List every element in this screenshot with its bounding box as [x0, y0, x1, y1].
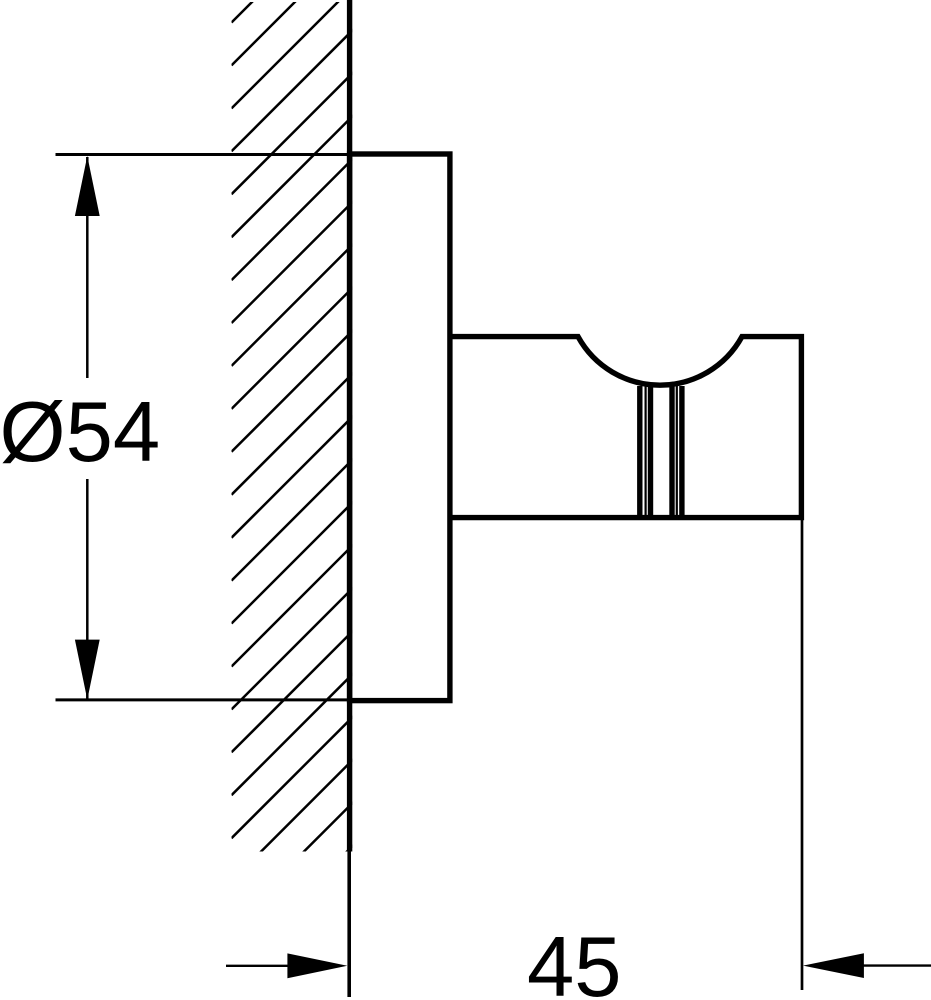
hook body outline with concave top dip	[450, 337, 802, 518]
45 dimension right arrowhead (points left at hook tip)	[803, 953, 864, 978]
hook tip extension line	[801, 520, 804, 990]
mounting plate (rosette)	[350, 154, 450, 701]
hook neck lines	[640, 386, 682, 519]
wall line thin extension to bottom dimension	[347, 852, 351, 998]
45 dimension left arrowhead (points right at wall line)	[287, 953, 347, 978]
Ø54 vertical dimension line upper segment	[86, 157, 89, 378]
45 dimension right tail line	[862, 964, 931, 966]
Ø54 down arrowhead	[75, 640, 100, 700]
Ø54 bottom dimension line	[56, 698, 450, 701]
Ø54 top dimension line	[56, 153, 450, 156]
Ø54 vertical dimension line lower segment	[86, 479, 89, 699]
Ø54 up arrowhead	[75, 156, 100, 216]
45 dimension left tail line	[226, 965, 292, 967]
wall hatching	[232, 0, 362, 967]
svg-text:Ø54: Ø54	[0, 385, 160, 480]
svg-text:45: 45	[527, 920, 622, 1000]
wall surface line	[347, 0, 352, 852]
